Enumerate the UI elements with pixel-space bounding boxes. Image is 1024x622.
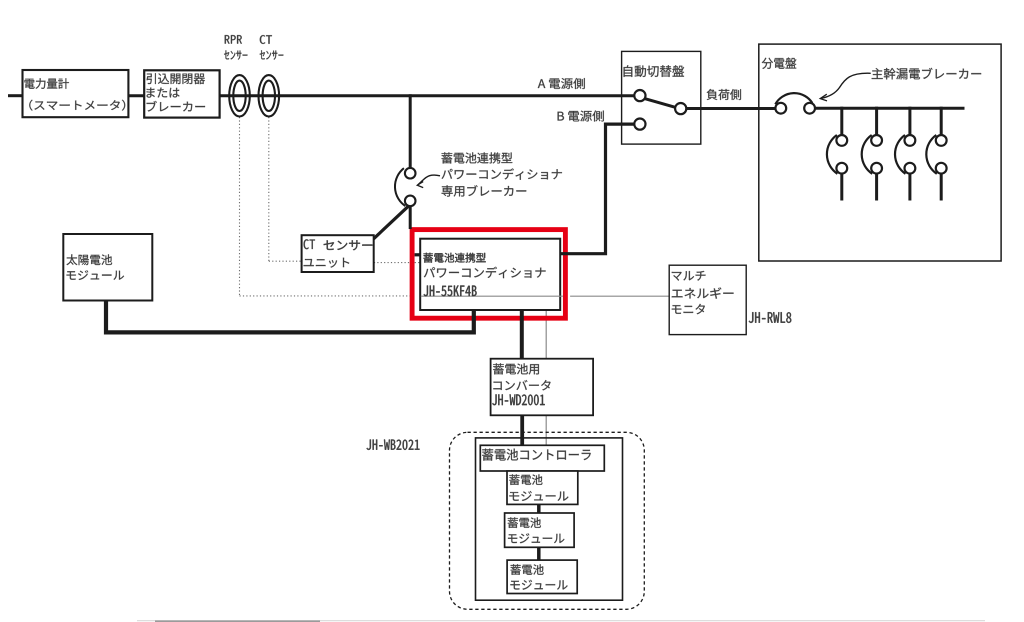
label: CT	[260, 35, 272, 44]
label: 蓄電池用	[493, 363, 539, 374]
wire diagonal dedicated breaker to CT sensor unit	[374, 205, 410, 239]
label: モニタ	[672, 304, 705, 314]
label: RPR	[225, 35, 242, 44]
arrow from label to dedicated breaker	[417, 175, 440, 188]
label: 蓄電池連携型 (breaker label)	[442, 152, 513, 163]
label: 蓄電池 (module 1)	[509, 474, 542, 485]
label: 蓄電池 (module 3)	[511, 564, 544, 575]
label: JH-WB2021	[367, 440, 420, 450]
wire main bus A to transfer switch	[219, 94, 635, 97]
wire branch 3 top stub	[908, 107, 911, 135]
dedicated breaker symbol (two circles + arc)	[395, 168, 416, 206]
wire branch 2 bottom stub	[875, 173, 878, 200]
wire switch blade A to load	[642, 98, 678, 108]
wire CT sensor signal to CT sensor unit (dotted)	[269, 260, 302, 262]
box: CT sensor unit CTセンサーユニット	[302, 235, 374, 272]
label: 蓄電池 (module 2)	[508, 517, 541, 528]
box: battery system inner enclosure	[476, 438, 623, 600]
wire RPR sensor signal horizontal to power conditioner (dotted)	[240, 295, 411, 297]
wire meter to breaker	[128, 94, 145, 97]
label: JH-RWL8	[749, 312, 792, 323]
label: コンバータ (converter)	[493, 380, 550, 390]
label: RPR センサー(halfwidth)	[224, 50, 247, 59]
label: 主幹漏電ブレーカー	[872, 68, 981, 80]
label: CT センサー(halfwidth)	[260, 50, 284, 59]
wire CT sensor unit to power conditioner (dotted)	[374, 262, 420, 264]
transfer switch terminal A	[634, 90, 645, 101]
branch breaker 1 symbol (two circles + left arc)	[827, 135, 847, 174]
wire PV module to power conditioner (thick L)	[106, 300, 474, 332]
label: 負荷側	[707, 89, 741, 100]
red highlight frame around battery-linked power conditioner	[412, 230, 565, 319]
wire monitor signal inside power conditioner (gray)	[421, 295, 563, 297]
arrow from label to main leakage breaker	[820, 73, 871, 101]
box: power meter 電力量計	[23, 70, 129, 117]
label: 分電盤	[762, 58, 797, 69]
wire B power side from power conditioner to transfer switch	[560, 124, 634, 254]
RPR sensor ring (double ellipse)	[229, 75, 250, 116]
wire branch 2 top stub	[875, 107, 878, 135]
box: multi energy monitor JH-RWL8	[669, 265, 746, 334]
label: 電力量計	[25, 78, 69, 89]
box: solar module 太陽電池モジュール	[63, 234, 152, 301]
label: （スマートメータ）	[29, 100, 125, 111]
wire CT sensor signal vertical (dotted)	[268, 117, 270, 261]
box: battery module 2	[505, 513, 574, 547]
label: 引込開閉器	[147, 73, 205, 84]
label: ユニット	[304, 258, 350, 268]
box: automatic transfer switch 自動切替盤	[622, 51, 701, 144]
cropped caption artifact at bottom edge	[137, 620, 985, 622]
label: B 電源側	[558, 111, 604, 122]
label: モジュール (module 3)	[510, 580, 567, 590]
box: service breaker 引込開閉器またはブレーカー	[144, 70, 219, 117]
label: JH-55KF4B	[424, 286, 477, 297]
box: battery converter JH-WD2001	[491, 359, 593, 416]
wire power conditioner to battery converter (gray, passes under red frame)	[545, 310, 547, 360]
label: 太陽電池	[67, 254, 113, 265]
wire RPR sensor signal vertical (dotted)	[239, 117, 241, 296]
box: battery module 1	[507, 471, 578, 504]
wire battery module 1 to module 2	[537, 504, 541, 516]
branch breaker 2 symbol (two circles + left arc)	[862, 135, 882, 174]
label: 蓄電池連携型 (in PCS box)	[424, 253, 486, 263]
label: 専用ブレーカー	[442, 185, 527, 196]
wire branch 1 bottom stub	[840, 173, 843, 200]
wire branch 4 bottom stub	[940, 173, 943, 200]
wire battery module 2 to module 3	[537, 546, 541, 561]
box: battery controller 蓄電池コントローラ	[480, 445, 604, 471]
dashed enclosure battery system JH-WB2021	[450, 432, 645, 609]
label: センサー (unit box)	[324, 240, 373, 250]
main leakage breaker symbol (two circles + top arc)	[775, 93, 815, 113]
wire battery converter to battery controller (thick)	[520, 415, 524, 447]
label: CT (unit box)	[304, 239, 315, 249]
label: モジュール (module 1)	[509, 491, 568, 501]
CT sensor ring (double ellipse)	[259, 75, 280, 116]
wire branch 3 bottom stub	[908, 173, 911, 200]
box: battery module 3	[507, 560, 577, 593]
box: distribution board 分電盤	[759, 44, 1001, 261]
wire dedicated breaker to red frame top	[409, 206, 412, 229]
label: マルチ	[672, 271, 706, 281]
wire service entrance stub	[8, 94, 23, 97]
branch breaker 4 symbol (two circles + left arc)	[926, 135, 946, 174]
wire battery converter to battery controller (gray)	[545, 415, 547, 447]
label: A 電源側	[538, 78, 585, 89]
wire branch 1 top stub	[840, 107, 843, 135]
label: 蓄電池コントローラ	[482, 449, 591, 461]
wire branch 4 top stub	[940, 107, 943, 135]
wire power conditioner to multi energy monitor (gray)	[570, 295, 669, 297]
branch breaker 3 symbol (two circles + left arc)	[895, 135, 915, 174]
wire branch down to dedicated breaker	[409, 94, 412, 168]
label: パワーコンディショナ (in PCS box)	[424, 267, 546, 278]
label: または	[147, 88, 180, 98]
label: モジュール (module 2)	[508, 533, 564, 543]
wire load side from transfer switch to distribution board	[686, 107, 776, 110]
wire power conditioner to battery converter (thick)	[520, 310, 524, 360]
label: JH-WD2001	[492, 394, 544, 405]
label: パワーコンディショナ (breaker label)	[442, 168, 562, 179]
wire stub into power conditioner left side	[415, 253, 421, 256]
transfer switch terminal B	[634, 119, 645, 130]
box: battery-linked power conditioner JH-55KF4B	[420, 239, 560, 310]
wire distribution board bus	[815, 107, 965, 110]
label: モジュール (solar)	[67, 270, 125, 280]
transfer switch load terminal	[675, 103, 686, 114]
label: エネルギー	[672, 287, 734, 298]
label: 自動切替盤	[624, 65, 685, 77]
label: ブレーカー	[147, 101, 205, 112]
